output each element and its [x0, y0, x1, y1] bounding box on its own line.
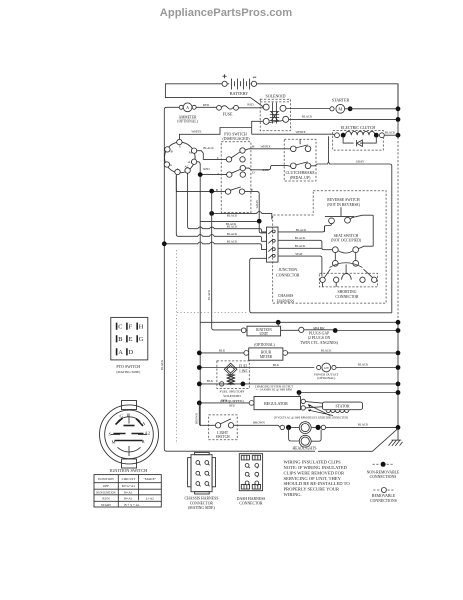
- svg-text:L: L: [177, 167, 179, 171]
- svg-text:A2: A2: [145, 431, 151, 436]
- svg-text:STATOR: STATOR: [336, 404, 350, 408]
- svg-text:(2 PLUGS ON: (2 PLUGS ON: [308, 336, 331, 340]
- svg-text:S: S: [109, 432, 112, 437]
- node junction gray wire dot: [257, 219, 262, 224]
- node dot on L vertical: [209, 211, 214, 216]
- svg-text:IGNITION SWITCH: IGNITION SWITCH: [110, 468, 149, 473]
- svg-text:ELECTRIC CLUTCH: ELECTRIC CLUTCH: [341, 126, 376, 130]
- headlight lamp 1: [291, 422, 315, 434]
- svg-text:NON-REMOVABLE: NON-REMOVABLE: [367, 470, 400, 474]
- wire seat lower contacts legs: [335, 253, 355, 261]
- wire solenoid lower-left to ignition S (white): [252, 121, 264, 134]
- svg-text:BLACK: BLACK: [358, 363, 369, 367]
- svg-text:(OPTIONAL): (OPTIONAL): [177, 120, 198, 124]
- svg-text:CHASSIS HARNESS: CHASSIS HARNESS: [184, 497, 218, 501]
- svg-text:BLACK: BLACK: [295, 236, 306, 240]
- wire gray line to reverse switch, label GRAY: [326, 162, 392, 312]
- wire seat switch right loop: [359, 215, 374, 248]
- node junction L wire: [209, 189, 214, 194]
- svg-text:RUN/IGNITION: RUN/IGNITION: [96, 491, 115, 494]
- svg-text:D: D: [129, 349, 134, 356]
- svg-text:BLACK: BLACK: [207, 289, 211, 300]
- svg-text:CIRCUIT: CIRCUIT: [122, 477, 136, 481]
- svg-text:BROWN: BROWN: [253, 421, 265, 425]
- svg-text:M: M: [338, 107, 342, 112]
- wire ammeter to fuse, label RED: [196, 106, 216, 108]
- svg-text:B+A1: B+A1: [124, 490, 133, 494]
- svg-text:A2: A2: [184, 165, 188, 169]
- wire hour meter line, label BLK / BLACK: [199, 352, 398, 354]
- ignition switch S1 (schematic): [164, 139, 197, 174]
- wire right bus (main vertical): [397, 84, 399, 137]
- wire 12V to bus, label BLACK: [336, 367, 398, 369]
- svg-text:RED: RED: [203, 167, 210, 171]
- wire ignition A1 to PTO A, label RED: [197, 162, 227, 175]
- node header watermark: [0, 7, 452, 19]
- svg-text:SPARK: SPARK: [313, 327, 325, 331]
- wire black line below PTO with hump: [212, 212, 272, 220]
- svg-text:BLACK: BLACK: [227, 240, 238, 244]
- svg-text:CONNECTIONS: CONNECTIONS: [370, 475, 397, 479]
- wire vertical L-feed (x=211.7) down to ignition unit: [212, 194, 241, 330]
- svg-text:CHASSIS: CHASSIS: [278, 294, 294, 298]
- svg-text:WHITE: WHITE: [296, 130, 306, 134]
- electric clutch L1: [333, 126, 385, 150]
- svg-text:STARTER: STARTER: [332, 97, 350, 102]
- svg-text:CONNECTOR: CONNECTOR: [335, 295, 359, 299]
- svg-text:HOUR: HOUR: [261, 350, 272, 354]
- svg-text:BLACK: BLACK: [295, 244, 306, 248]
- wire junction pin4 left loop to long bottom line: [250, 258, 392, 313]
- svg-text:POSITION: POSITION: [98, 477, 114, 481]
- svg-text:(PEDAL UP): (PEDAL UP): [290, 176, 311, 180]
- svg-text:(DISENGAGED): (DISENGAGED): [223, 137, 251, 141]
- svg-text:A: A: [142, 421, 146, 426]
- wire gray vertical continues to junction connector pin1: [259, 224, 266, 233]
- svg-text:BLACK: BLACK: [321, 348, 332, 352]
- node removable connection on fuel line: [220, 382, 224, 386]
- svg-text:BLACK: BLACK: [302, 114, 313, 118]
- wire ignition M to PTO C, label BLACK: [197, 151, 227, 160]
- svg-text:NOTE: IF WIRING INSULATED: NOTE: IF WIRING INSULATED: [284, 465, 348, 470]
- seat switch SW5 (not occupied): [330, 234, 363, 274]
- wire fuel solenoid line to bus, label BLK: [199, 383, 398, 385]
- svg-text:BLACK: BLACK: [385, 131, 396, 135]
- light switch SW6: [209, 415, 238, 440]
- wire dot to ignition unit: [277, 322, 279, 326]
- junction connector J1: [267, 227, 300, 277]
- svg-text:WIRING.: WIRING.: [284, 492, 302, 497]
- dash harness connector: [237, 454, 266, 506]
- svg-text:UNIT: UNIT: [260, 332, 269, 336]
- svg-text:START: START: [101, 503, 112, 507]
- svg-text:(MATING SIDE): (MATING SIDE): [188, 506, 215, 510]
- svg-text:M: M: [112, 440, 116, 445]
- svg-text:SOLENOID: SOLENOID: [266, 93, 286, 98]
- node left bus corner to ammeter: [164, 107, 179, 109]
- chassis harness dashed boundary: [273, 191, 386, 303]
- wire junction pin3 merge: [278, 247, 322, 249]
- svg-text:F: F: [129, 324, 133, 331]
- wire clutch/brake right to gray line: [311, 164, 326, 166]
- svg-text:HEADLIGHTS: HEADLIGHTS: [292, 446, 316, 450]
- starter M1: [330, 97, 353, 113]
- clutch/brake switch SW3 (pedal up): [284, 139, 316, 181]
- svg-text:CONNECTOR: CONNECTOR: [276, 273, 300, 277]
- wire hump line 2 (ignition L feed to junction pin2): [176, 176, 266, 241]
- svg-text:D: D: [252, 171, 255, 175]
- regulator U2: [249, 397, 305, 411]
- svg-text:TWIN CYL. ENGINES): TWIN CYL. ENGINES): [300, 341, 339, 345]
- ignition switch position table: [94, 475, 161, 507]
- svg-text:JUNCTION: JUNCTION: [279, 268, 298, 272]
- svg-text:L+A2: L+A2: [146, 497, 154, 501]
- svg-text:B: B: [170, 149, 173, 153]
- svg-text:B: B: [118, 336, 122, 343]
- svg-text:(OPTIONAL): (OPTIONAL): [254, 343, 275, 347]
- fuse F1: [217, 105, 239, 116]
- node left bus dot: [162, 241, 167, 246]
- stator G1: [305, 402, 362, 413]
- wire junction pin4 to shorting connector, label SEAT: [278, 256, 322, 276]
- svg-text:B + S + A1: B + S + A1: [124, 503, 140, 507]
- svg-text:B: B: [142, 439, 145, 444]
- svg-text:CONNECTOR: CONNECTOR: [239, 502, 263, 506]
- svg-text:M: M: [189, 150, 192, 154]
- svg-text:BLK: BLK: [273, 363, 280, 367]
- svg-text:WIRING INSULATED CLIPS: WIRING INSULATED CLIPS: [284, 460, 342, 465]
- wire 12V outlet line: [199, 367, 314, 369]
- svg-text:FUSE: FUSE: [223, 111, 233, 116]
- ground symbol: [372, 428, 398, 451]
- svg-text:BLACK: BLACK: [296, 228, 307, 232]
- ammeter A (optional): [177, 103, 198, 124]
- svg-text:SHOULD BE RE-INSTALLED TO: SHOULD BE RE-INSTALLED TO: [284, 481, 351, 486]
- wiring insulated clips note: [284, 460, 351, 497]
- PTO switch SW2 (designated): [216, 132, 255, 212]
- svg-text:A1: A1: [188, 160, 192, 164]
- wire regulator feed from light line: [199, 402, 249, 404]
- node dot above ignition unit: [276, 320, 281, 325]
- wire junction pin1 to reverse switch, label BLACK: [278, 226, 325, 232]
- wire starter to right bus: [345, 108, 398, 110]
- svg-text:DASH HARNESS: DASH HARNESS: [237, 497, 266, 501]
- wire light switch to headlights, label BROWN: [234, 425, 281, 427]
- svg-text:RED: RED: [203, 103, 210, 107]
- wire ignition S up to white line: [179, 134, 181, 139]
- wire reverse switch right leg up to gray: [350, 215, 373, 219]
- wire solenoid to starter: [286, 108, 330, 110]
- wire hump line 3 (left bus feed to junction pin3): [164, 242, 266, 250]
- power outlet 12V (optional): [314, 363, 338, 380]
- svg-text:OFF: OFF: [103, 484, 109, 488]
- svg-text:H: H: [139, 324, 144, 331]
- headlight lamp 2: [289, 427, 322, 447]
- svg-text:SEAT: SEAT: [295, 252, 303, 256]
- svg-text:28 VOLTS AC @ 3600 RPM (REGULA: 28 VOLTS AC @ 3600 RPM (REGULATOR DISCON…: [274, 417, 348, 420]
- svg-text:RED: RED: [229, 404, 234, 407]
- wire battery negative to right bus: [257, 84, 398, 107]
- wire PTO E to gray vertical: [245, 192, 260, 219]
- svg-text:BLACK: BLACK: [160, 359, 164, 370]
- svg-text:BLACK: BLACK: [203, 146, 214, 150]
- spark plugs E1: [281, 327, 339, 345]
- legend non-removable connection: [367, 462, 400, 479]
- svg-text:PTO SWITCH: PTO SWITCH: [224, 132, 247, 136]
- svg-text:S: S: [179, 145, 181, 149]
- svg-text:G: G: [170, 163, 173, 167]
- svg-text:(OPTIONAL): (OPTIONAL): [317, 376, 335, 380]
- svg-text:BLACK: BLACK: [227, 232, 238, 236]
- svg-text:C: C: [118, 324, 122, 331]
- svg-text:M+G+A1: M+G+A1: [122, 484, 136, 488]
- node junction A1 wire: [198, 172, 203, 177]
- svg-text:PROPERLY SECURE YOUR: PROPERLY SECURE YOUR: [284, 487, 341, 492]
- wire headlights to bus ground, label BLACK: [316, 425, 321, 430]
- wire long line to bus (kill circuit): [200, 321, 398, 323]
- wire fuse to solenoid, label RED: [238, 107, 263, 109]
- svg-text:+ - 14 AMPS DC @ 3600 RPM: + - 14 AMPS DC @ 3600 RPM: [256, 389, 292, 392]
- shorting connector J2: [319, 269, 377, 299]
- svg-text:H: H: [252, 145, 255, 149]
- svg-text:WHITE: WHITE: [261, 145, 271, 149]
- fuel shutoff solenoid Y1: [217, 361, 249, 408]
- dash harness dashed boundary vertical: [176, 250, 178, 444]
- svg-text:HARNESS: HARNESS: [277, 299, 294, 303]
- svg-text:RUN: RUN: [102, 497, 110, 501]
- chassis harness connector (mating side): [184, 452, 218, 510]
- svg-text:PLUGS GAP: PLUGS GAP: [309, 332, 330, 336]
- svg-text:BLACK: BLACK: [226, 222, 237, 226]
- wire clutch to right bus, label BLACK: [384, 134, 398, 136]
- ignition unit U1: [241, 326, 280, 336]
- svg-text:BLACK: BLACK: [358, 423, 369, 427]
- svg-text:CLIPS WERE REMOVED FOR: CLIPS WERE REMOVED FOR: [284, 470, 345, 475]
- svg-text:REGULATOR: REGULATOR: [264, 401, 288, 406]
- wire spark plug line to bus: [304, 329, 398, 332]
- svg-text:LIGHT: LIGHT: [217, 431, 229, 435]
- node bus dot at long line: [396, 320, 401, 325]
- wire hump line 1 (ignition A2 feed to junction pin1): [188, 173, 267, 232]
- wire reverse switch left leg: [325, 224, 332, 232]
- svg-text:LINE: LINE: [239, 369, 248, 373]
- svg-text:GRAY: GRAY: [255, 199, 259, 208]
- svg-text:12V: 12V: [323, 366, 329, 370]
- svg-text:BLACK: BLACK: [227, 213, 238, 217]
- svg-text:CLUTCH/BRAKE: CLUTCH/BRAKE: [286, 171, 316, 175]
- wire vertical white feed crossing: [328, 136, 330, 162]
- wire bottom edge continues to diagonal: [290, 450, 372, 452]
- svg-text:CONNECTIONS: CONNECTIONS: [370, 499, 397, 503]
- svg-text:RED: RED: [221, 398, 228, 402]
- svg-text:E: E: [129, 336, 133, 343]
- svg-text:METER: METER: [260, 355, 273, 359]
- svg-text:RED: RED: [263, 168, 270, 172]
- svg-text:BLK: BLK: [207, 379, 214, 383]
- svg-text:(NOT OCCUPIED): (NOT OCCUPIED): [331, 239, 362, 243]
- solenoid K1: [260, 93, 290, 130]
- wire ignition G stub to left bus: [163, 164, 165, 166]
- svg-text:(NOT IN REVERSE): (NOT IN REVERSE): [327, 203, 361, 207]
- wire solenoid switched output to right bus, label BLACK: [289, 118, 398, 120]
- wire battery positive to left bus: [165, 84, 250, 98]
- svg-text:WHITE: WHITE: [191, 130, 201, 134]
- svg-text:BROWN: BROWN: [194, 412, 198, 424]
- svg-text:RED: RED: [247, 103, 254, 107]
- svg-text:BLK: BLK: [219, 348, 226, 352]
- hour meter M2 (optional): [244, 343, 288, 360]
- wire diagonal battery loop to solenoid: [251, 98, 264, 108]
- reverse switch SW4 (not in reverse): [325, 198, 361, 224]
- svg-text:PTO SWITCH: PTO SWITCH: [116, 364, 140, 369]
- svg-text:B+A1: B+A1: [124, 497, 133, 501]
- svg-text:CONNECTOR: CONNECTOR: [190, 501, 214, 505]
- svg-text:GRAY: GRAY: [356, 160, 365, 164]
- wire black line to gray dot: [200, 220, 257, 222]
- wire light feed down from regulator tap: [199, 403, 215, 425]
- battery B1: [222, 74, 257, 96]
- svg-text:L: L: [127, 413, 130, 418]
- wire left bus (main vertical): [164, 110, 290, 452]
- wire PTO H to electric clutch, label WHITE: [245, 149, 290, 150]
- wire PTO D to clutch/brake, label RED: [246, 165, 291, 169]
- wire junction pin2 to seat switch, label BLACK: [278, 240, 332, 249]
- dash harness dashed boundary horizontal: [177, 311, 248, 313]
- fuel line symbol (diamond): [224, 363, 248, 375]
- svg-text:SEAT SWITCH: SEAT SWITCH: [334, 234, 359, 238]
- node bus junction dots top: [396, 106, 401, 111]
- svg-text:A: A: [118, 349, 123, 356]
- legend removable connection: [370, 488, 397, 503]
- wire ignition L down to PTO B row: [176, 175, 225, 192]
- svg-text:(MATING SIDE): (MATING SIDE): [116, 370, 140, 374]
- svg-text:BATTERY: BATTERY: [230, 91, 249, 96]
- wire ignition B stub to left bus: [163, 148, 166, 150]
- svg-text:SHORTING: SHORTING: [338, 290, 357, 294]
- wire ignition A2 down: [187, 173, 189, 174]
- svg-text:G: G: [139, 336, 144, 343]
- svg-text:A: A: [186, 105, 189, 110]
- PTO switch mating side grid: [111, 317, 148, 374]
- svg-text:"MAKE": "MAKE": [143, 477, 156, 481]
- svg-text:SWITCH: SWITCH: [216, 435, 230, 439]
- wire vertical A-feed (x=200.2) down: [199, 177, 201, 426]
- svg-text:A: A: [217, 172, 220, 176]
- svg-text:REMOVABLE: REMOVABLE: [372, 494, 396, 498]
- wire regulator top line to bus: [299, 392, 398, 394]
- ignition switch mating connector (circular): [100, 401, 159, 469]
- svg-text:FUEL SHUTOFF: FUEL SHUTOFF: [220, 390, 245, 394]
- svg-text:REVERSE SWITCH: REVERSE SWITCH: [327, 198, 360, 202]
